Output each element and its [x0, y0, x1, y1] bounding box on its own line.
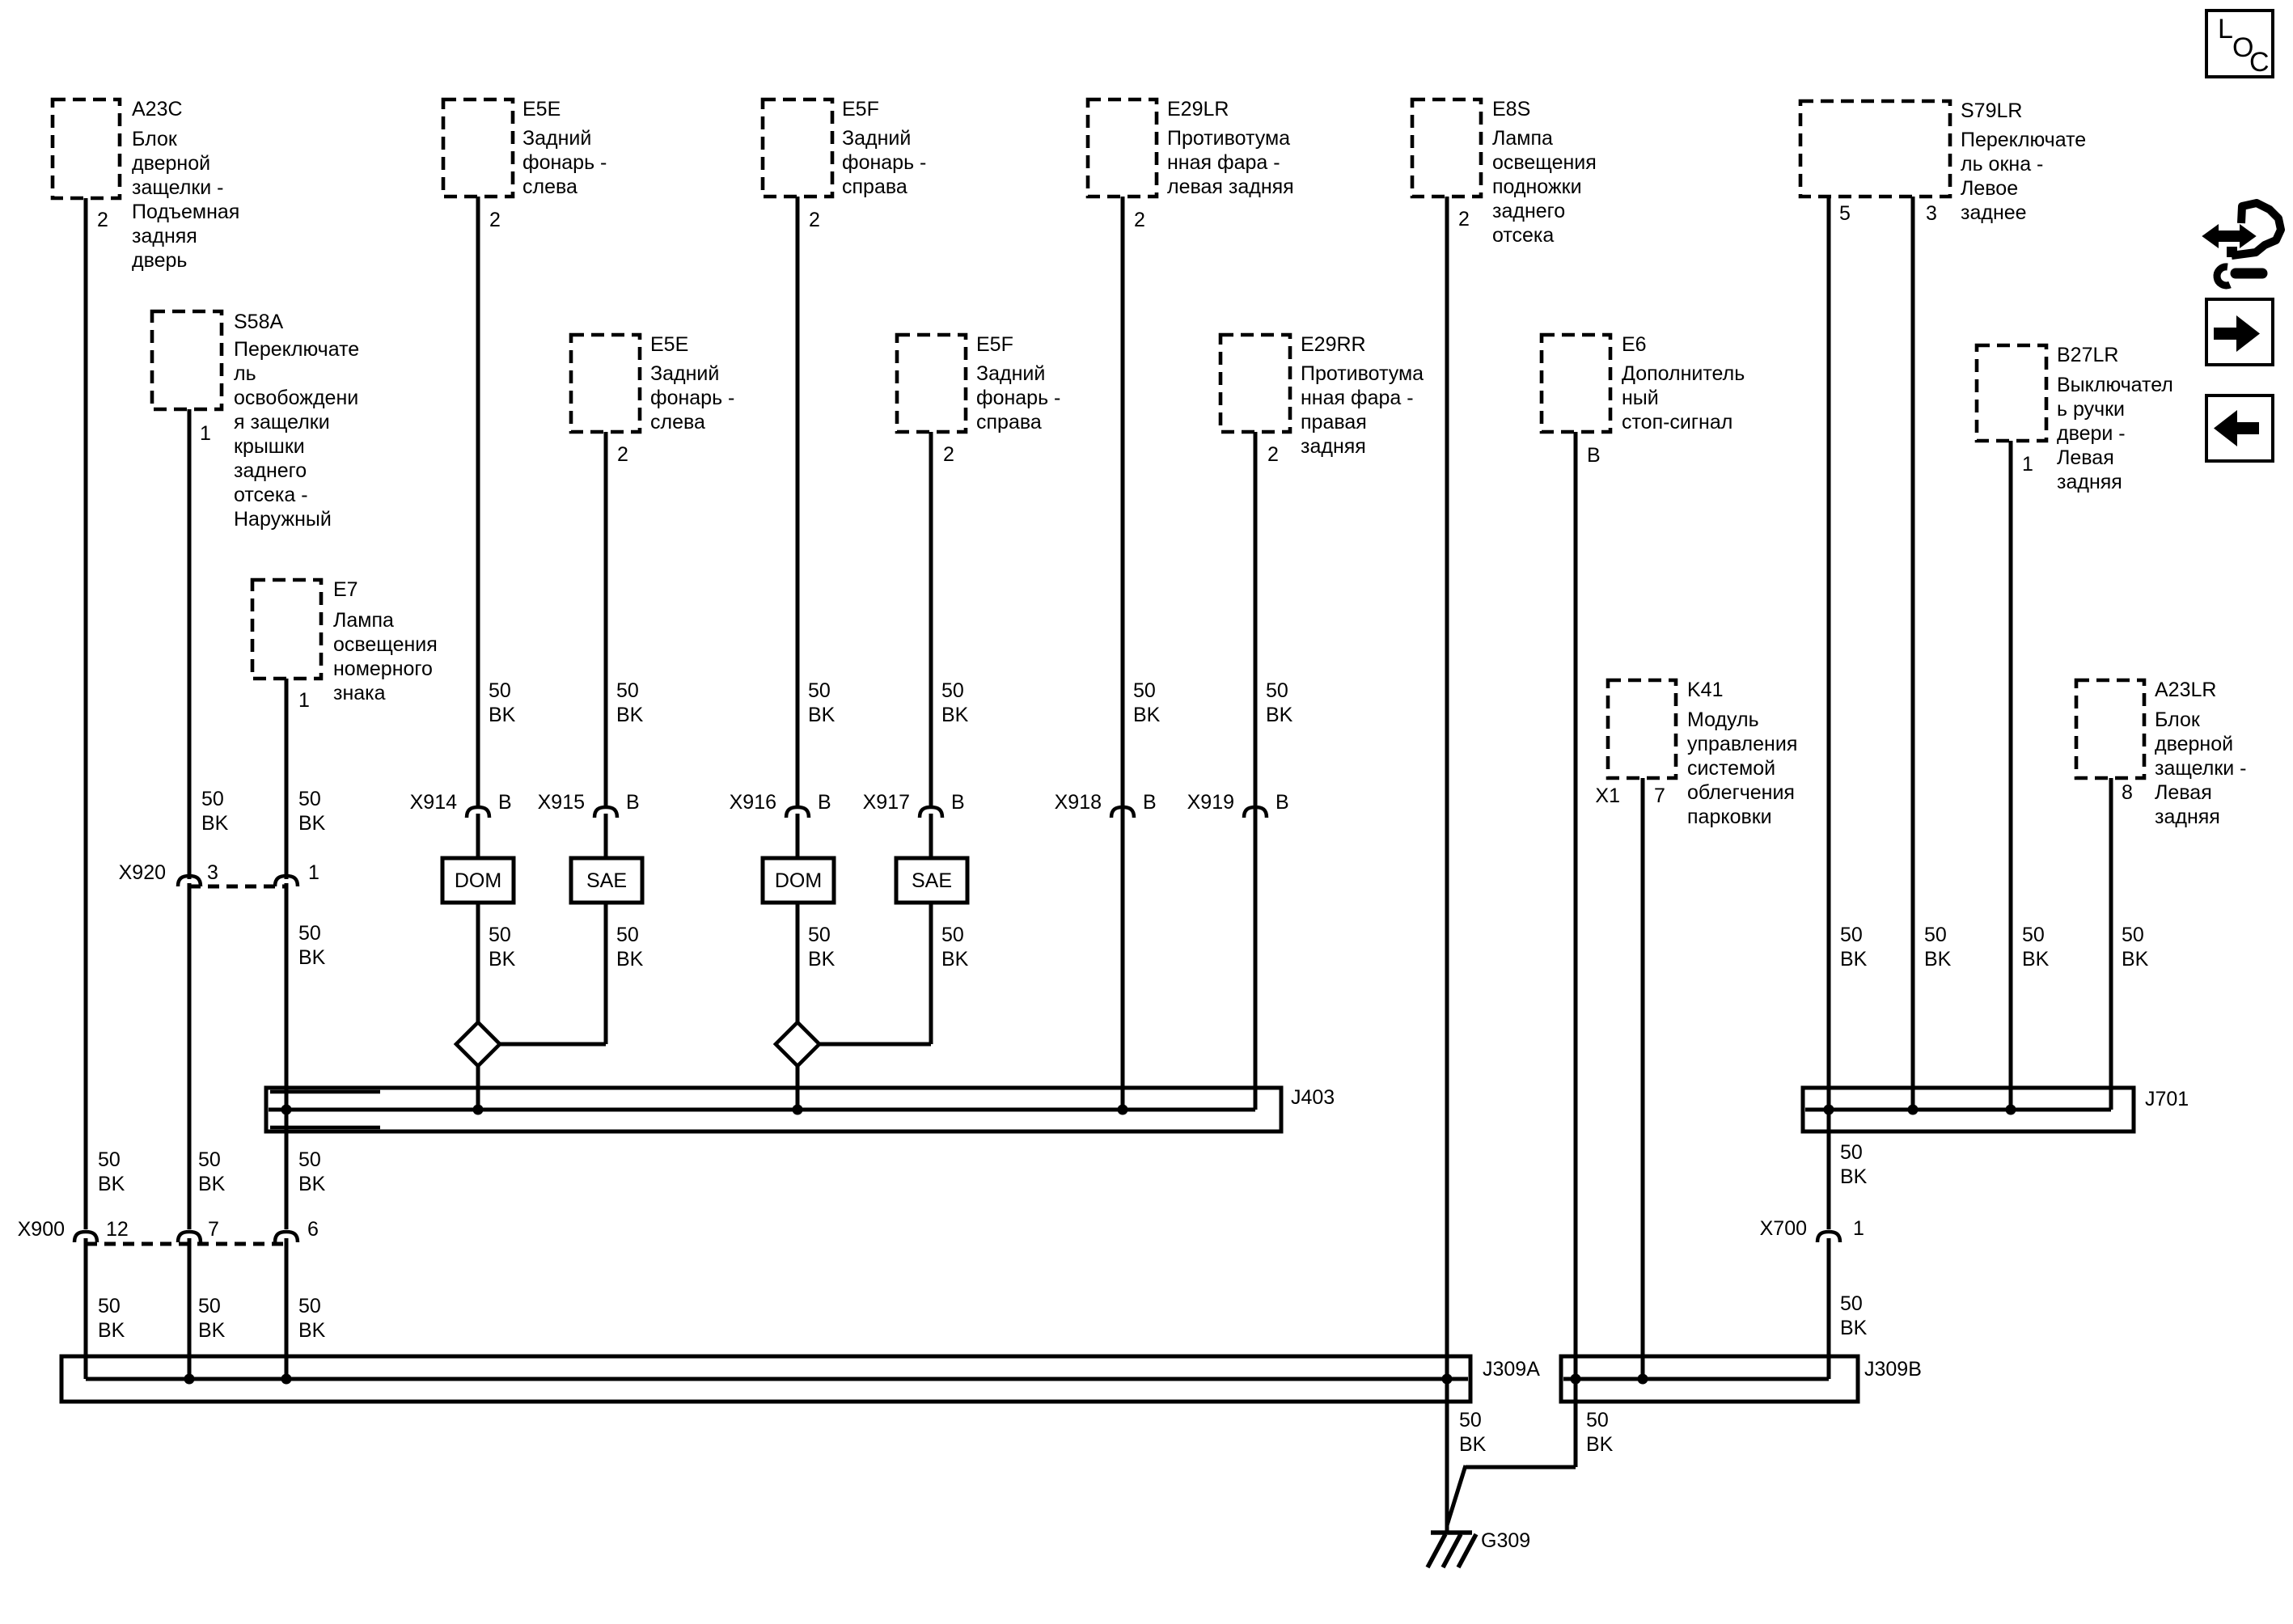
- svg-text:8: 8: [2122, 781, 2133, 804]
- svg-text:X919: X919: [1187, 791, 1234, 814]
- svg-text:справа: справа: [976, 411, 1042, 433]
- svg-text:Задний: Задний: [522, 127, 591, 150]
- connector X900 arc at pin 7: [178, 1232, 201, 1242]
- svg-text:1: 1: [298, 689, 310, 712]
- svg-text:BK: BK: [1840, 948, 1868, 971]
- svg-text:2: 2: [1267, 443, 1279, 466]
- svg-text:BK: BK: [941, 948, 969, 971]
- svg-text:BK: BK: [941, 704, 969, 726]
- splice box SAE left: [571, 858, 642, 903]
- svg-text:задняя: задняя: [1301, 435, 1366, 458]
- connector X920 dashed link: [189, 885, 286, 889]
- svg-text:7: 7: [208, 1218, 219, 1241]
- svg-text:50: 50: [808, 924, 831, 946]
- svg-text:правая: правая: [1301, 411, 1367, 433]
- svg-text:X920: X920: [119, 861, 166, 884]
- connector X900 dashed link: [86, 1242, 286, 1246]
- svg-text:BK: BK: [1133, 704, 1161, 726]
- component K41 (parking assist control module) dashed box: [1608, 680, 1676, 778]
- svg-text:J701: J701: [2145, 1088, 2189, 1110]
- connector X700 arc: [1817, 1232, 1840, 1242]
- svg-text:BK: BK: [1924, 948, 1952, 971]
- svg-text:BK: BK: [808, 948, 836, 971]
- LOC reference box: [2206, 11, 2273, 78]
- wire S58A below X920 to X900 pin 7: [188, 883, 192, 1229]
- splice diamond left: [456, 1022, 500, 1066]
- wire below X918 to bus J403: [1121, 814, 1125, 1110]
- svg-text:50: 50: [2122, 924, 2144, 946]
- svg-text:фонарь -: фонарь -: [976, 387, 1060, 409]
- ground symbol G309: [1428, 1533, 1476, 1567]
- svg-text:2: 2: [97, 209, 108, 231]
- connector X900 arc at pin 12: [74, 1232, 97, 1242]
- connector X918 arc: [1111, 807, 1134, 818]
- svg-text:Выключател: Выключател: [2057, 374, 2173, 396]
- svg-text:BK: BK: [808, 704, 836, 726]
- component E5F (tail lamp right, upper) dashed box: [763, 99, 832, 197]
- svg-text:отсека: отсека: [1492, 224, 1554, 247]
- svg-text:50: 50: [808, 679, 831, 702]
- svg-text:защелки -: защелки -: [132, 176, 224, 199]
- svg-text:заднего: заднего: [234, 459, 307, 482]
- wire K41 X1 pin7 down to bus J309B: [1641, 778, 1645, 1379]
- svg-text:управления: управления: [1687, 733, 1797, 755]
- svg-text:J309B: J309B: [1864, 1358, 1922, 1381]
- svg-text:Левая: Левая: [2057, 446, 2114, 469]
- svg-text:BK: BK: [1266, 704, 1293, 726]
- svg-text:фонарь -: фонарь -: [842, 151, 926, 174]
- svg-text:1: 1: [2022, 453, 2033, 476]
- wire B27LR pin1 down to bus J701: [2009, 441, 2013, 1110]
- wire DOM right to splice diamond: [796, 903, 800, 1024]
- svg-text:Левое: Левое: [1961, 177, 2018, 200]
- svg-text:50: 50: [1840, 1141, 1863, 1164]
- svg-text:Противотума: Противотума: [1167, 127, 1290, 150]
- svg-text:E5E: E5E: [650, 333, 688, 356]
- svg-text:фонарь -: фонарь -: [522, 151, 607, 174]
- wire E5E pin2 down to connector X914: [476, 197, 480, 806]
- svg-text:освобождени: освобождени: [234, 387, 358, 409]
- splice box DOM left: [442, 858, 514, 903]
- svg-text:5: 5: [1839, 202, 1851, 225]
- svg-text:B: B: [1143, 791, 1157, 814]
- connector X917 arc: [920, 807, 942, 818]
- svg-text:защелки -: защелки -: [2155, 757, 2247, 780]
- svg-text:50: 50: [1840, 1292, 1863, 1315]
- svg-text:S58A: S58A: [234, 311, 283, 333]
- svg-text:дверь: дверь: [132, 249, 187, 272]
- svg-text:12: 12: [106, 1218, 129, 1241]
- svg-text:BK: BK: [198, 1319, 226, 1342]
- svg-text:подножки: подножки: [1492, 176, 1582, 198]
- svg-text:стоп-сигнал: стоп-сигнал: [1622, 411, 1732, 433]
- svg-text:X900: X900: [18, 1218, 65, 1241]
- component E5E (tail lamp left, upper) dashed box: [443, 99, 513, 197]
- bus bar J701: [1803, 1088, 2134, 1131]
- svg-text:облегчения: облегчения: [1687, 781, 1795, 804]
- svg-text:BK: BK: [98, 1173, 125, 1195]
- wire E5F lower pin2 down to connector X917: [929, 432, 933, 806]
- bus bar J309A: [61, 1356, 1470, 1402]
- svg-text:BK: BK: [1840, 1317, 1868, 1339]
- wire X917 to SAE right: [929, 814, 933, 858]
- svg-text:Переключате: Переключате: [234, 338, 359, 361]
- svg-text:BK: BK: [198, 1173, 226, 1195]
- wire X915 to SAE left: [604, 814, 608, 858]
- svg-text:E29RR: E29RR: [1301, 333, 1366, 356]
- svg-text:B: B: [498, 791, 512, 814]
- svg-text:слева: слева: [650, 411, 705, 433]
- svg-text:BK: BK: [298, 1173, 326, 1195]
- svg-text:слева: слева: [522, 176, 577, 198]
- svg-text:двери -: двери -: [2057, 422, 2126, 445]
- svg-text:L: L: [2218, 14, 2233, 44]
- svg-text:B27LR: B27LR: [2057, 344, 2118, 366]
- svg-text:Левая: Левая: [2155, 781, 2212, 804]
- svg-text:SAE: SAE: [912, 869, 952, 892]
- component S58A (liftgate latch release switch) dashed box: [152, 311, 222, 409]
- svg-text:B: B: [818, 791, 831, 814]
- wire diamond left to bus J403: [476, 1064, 480, 1110]
- bus bar J403 doubled border detail at left end: [270, 1092, 380, 1127]
- svg-text:50: 50: [489, 679, 511, 702]
- svg-text:заднего: заднего: [1492, 200, 1565, 222]
- svg-text:2: 2: [809, 209, 820, 231]
- svg-text:Наружный: Наружный: [234, 508, 332, 531]
- svg-text:3: 3: [1926, 202, 1937, 225]
- svg-text:B: B: [951, 791, 965, 814]
- svg-text:ль: ль: [234, 362, 256, 385]
- svg-text:50: 50: [98, 1295, 121, 1317]
- icon diagnostic link (double arrow with wrench): [2203, 203, 2281, 285]
- component E8S (rear compartment sill lamp) dashed box: [1412, 99, 1481, 197]
- svg-text:BK: BK: [98, 1319, 125, 1342]
- svg-text:BK: BK: [1459, 1433, 1487, 1456]
- svg-text:Дополнитель: Дополнитель: [1622, 362, 1745, 385]
- wire DOM left to splice diamond: [476, 903, 480, 1024]
- svg-text:Задний: Задний: [842, 127, 911, 150]
- svg-text:X916: X916: [730, 791, 776, 814]
- svg-text:50: 50: [1266, 679, 1288, 702]
- svg-text:X917: X917: [863, 791, 910, 814]
- svg-text:BK: BK: [298, 812, 326, 835]
- bus bar J309B: [1561, 1356, 1858, 1402]
- svg-text:50: 50: [616, 924, 639, 946]
- svg-text:50: 50: [941, 924, 964, 946]
- svg-text:E6: E6: [1622, 333, 1647, 356]
- svg-text:BK: BK: [298, 946, 326, 969]
- svg-text:парковки: парковки: [1687, 806, 1772, 828]
- wire E6 elbow toward ground: [1466, 1465, 1576, 1470]
- wire X916 to DOM right: [796, 814, 800, 858]
- svg-text:A23C: A23C: [132, 98, 183, 121]
- svg-text:BK: BK: [489, 948, 516, 971]
- svg-text:Противотума: Противотума: [1301, 362, 1424, 385]
- svg-text:BK: BK: [2022, 948, 2050, 971]
- svg-text:X918: X918: [1055, 791, 1102, 814]
- wire diamond right to bus J403: [796, 1064, 800, 1110]
- connector X915 arc: [594, 807, 617, 818]
- component E5F (tail lamp right, lower) dashed box: [897, 335, 966, 432]
- svg-text:50: 50: [489, 924, 511, 946]
- svg-text:X914: X914: [410, 791, 457, 814]
- svg-text:B: B: [1587, 444, 1601, 467]
- bus bar J403: [266, 1088, 1281, 1131]
- svg-text:X700: X700: [1760, 1217, 1807, 1240]
- svg-text:E5F: E5F: [976, 333, 1013, 356]
- connector X920 arc at pin 1: [275, 876, 298, 886]
- svg-text:50: 50: [941, 679, 964, 702]
- svg-text:50: 50: [1133, 679, 1156, 702]
- svg-text:левая задняя: левая задняя: [1167, 176, 1294, 198]
- connector X900 arc at pin 6: [275, 1232, 298, 1242]
- component E29LR (fog lamp left rear) dashed box: [1088, 99, 1157, 197]
- svg-text:50: 50: [616, 679, 639, 702]
- component E29RR (fog lamp right rear) dashed box: [1221, 335, 1290, 432]
- svg-text:Подъемная: Подъемная: [132, 201, 239, 223]
- svg-text:Переключате: Переключате: [1961, 129, 2086, 151]
- wire E7 pin1 down to connector X920 pin 1: [285, 679, 289, 879]
- svg-text:E8S: E8S: [1492, 98, 1530, 121]
- svg-text:6: 6: [307, 1218, 319, 1241]
- svg-text:J309A: J309A: [1483, 1358, 1540, 1381]
- svg-text:50: 50: [2022, 924, 2045, 946]
- svg-text:Модуль: Модуль: [1687, 708, 1759, 731]
- wire S79LR pin3 down to bus J701: [1911, 197, 1915, 1110]
- component A23C (door latch assembly, liftgate) dashed box: [53, 99, 120, 198]
- connector X920 arc at pin 3: [178, 876, 201, 886]
- svg-text:Задний: Задний: [650, 362, 719, 385]
- svg-text:ный: ный: [1622, 387, 1659, 409]
- wire E5F pin2 down to connector X916: [796, 197, 800, 806]
- svg-text:номерного: номерного: [333, 658, 433, 680]
- svg-text:G309: G309: [1481, 1529, 1530, 1552]
- svg-text:2: 2: [489, 209, 501, 231]
- svg-text:A23LR: A23LR: [2155, 679, 2216, 701]
- svg-text:50: 50: [298, 1148, 321, 1171]
- svg-text:освещения: освещения: [333, 633, 438, 656]
- svg-text:освещения: освещения: [1492, 151, 1597, 174]
- svg-text:2: 2: [943, 443, 954, 466]
- svg-text:дверной: дверной: [132, 152, 210, 175]
- svg-text:E29LR: E29LR: [1167, 98, 1229, 121]
- component B27LR (door handle switch left rear) dashed box: [1977, 345, 2046, 441]
- svg-text:50: 50: [198, 1295, 221, 1317]
- svg-text:задняя: задняя: [2155, 806, 2220, 828]
- svg-text:50: 50: [201, 788, 224, 810]
- svg-text:BK: BK: [489, 704, 516, 726]
- svg-text:нная фара -: нная фара -: [1167, 151, 1280, 174]
- svg-text:B: B: [1276, 791, 1289, 814]
- svg-text:BK: BK: [298, 1319, 326, 1342]
- svg-text:E7: E7: [333, 578, 358, 601]
- svg-text:50: 50: [298, 788, 321, 810]
- svg-text:2: 2: [617, 443, 628, 466]
- connector X916 arc: [786, 807, 809, 818]
- svg-text:системой: системой: [1687, 757, 1775, 780]
- svg-text:1: 1: [308, 861, 319, 884]
- wire E7 below X920 through bus J403 to X900 pin 6: [285, 883, 289, 1229]
- wire A23LR pin8 down to bus J701 right end: [2109, 778, 2113, 1110]
- svg-text:X915: X915: [538, 791, 585, 814]
- component E7 (license plate lamp) dashed box: [252, 580, 321, 679]
- wire diagonal to ground G309: [1447, 1465, 1466, 1525]
- wire E8S pin2 down through bus J309A to ground G309: [1445, 197, 1449, 1531]
- svg-text:J403: J403: [1291, 1086, 1335, 1109]
- wire below X700 to bus J309B: [1827, 1238, 1831, 1379]
- wire S58A below X900 to bus J309A: [188, 1238, 192, 1379]
- svg-text:ль окна -: ль окна -: [1961, 153, 2043, 176]
- svg-text:задняя: задняя: [2057, 471, 2122, 493]
- svg-text:50: 50: [298, 922, 321, 945]
- svg-text:дверной: дверной: [2155, 733, 2233, 755]
- svg-text:BK: BK: [1586, 1433, 1614, 1456]
- svg-text:E5F: E5F: [842, 98, 879, 121]
- svg-text:50: 50: [1586, 1409, 1609, 1432]
- wire S79LR pin5 down through bus J701 and X700 to bus J309B: [1827, 197, 1831, 1229]
- svg-text:BK: BK: [616, 704, 644, 726]
- svg-text:крышки: крышки: [234, 435, 305, 458]
- svg-text:BK: BK: [1840, 1165, 1868, 1188]
- splice box DOM right: [763, 858, 834, 903]
- svg-text:справа: справа: [842, 176, 907, 198]
- wire elbow SAE left to diamond left: [498, 1042, 606, 1047]
- svg-text:DOM: DOM: [455, 869, 501, 892]
- svg-text:ь ручки: ь ручки: [2057, 398, 2125, 421]
- wire SAE right down to elbow: [929, 903, 933, 1044]
- svg-text:фонарь -: фонарь -: [650, 387, 734, 409]
- svg-text:50: 50: [1840, 924, 1863, 946]
- svg-text:я защелки: я защелки: [234, 411, 330, 433]
- wire below X919 to bus J403: [1254, 814, 1258, 1110]
- component A23LR (door latch assembly left rear) dashed box: [2076, 680, 2144, 778]
- component S79LR (window switch left rear) dashed box: [1800, 101, 1950, 197]
- svg-text:B: B: [626, 791, 640, 814]
- svg-text:50: 50: [1924, 924, 1947, 946]
- svg-text:2: 2: [1458, 208, 1470, 230]
- icon arrow left box: [2206, 395, 2273, 461]
- svg-text:E5E: E5E: [522, 98, 561, 121]
- svg-text:1: 1: [1853, 1217, 1864, 1240]
- wire E29RR pin2 down to bus J403 right end: [1254, 432, 1258, 1110]
- svg-text:BK: BK: [2122, 948, 2149, 971]
- svg-text:Блок: Блок: [132, 128, 178, 150]
- svg-text:Задний: Задний: [976, 362, 1045, 385]
- svg-text:SAE: SAE: [586, 869, 627, 892]
- icon arrow right box: [2206, 299, 2273, 365]
- connector X914 arc: [467, 807, 489, 818]
- wire SAE left down to elbow: [604, 903, 608, 1044]
- svg-text:Блок: Блок: [2155, 708, 2201, 731]
- svg-text:1: 1: [200, 422, 211, 445]
- svg-text:2: 2: [1134, 209, 1145, 231]
- wire elbow SAE right to diamond right: [818, 1042, 931, 1047]
- component E6 (center high stop lamp) dashed box: [1542, 335, 1610, 432]
- svg-text:K41: K41: [1687, 679, 1723, 701]
- svg-text:X1: X1: [1595, 785, 1620, 807]
- svg-text:7: 7: [1654, 785, 1665, 807]
- svg-text:отсека -: отсека -: [234, 484, 308, 506]
- svg-text:BK: BK: [616, 948, 644, 971]
- svg-text:50: 50: [298, 1295, 321, 1317]
- svg-text:Лампа: Лампа: [1492, 127, 1553, 150]
- wire A23C below X900 to bus J309A: [84, 1238, 88, 1379]
- svg-text:DOM: DOM: [775, 869, 822, 892]
- svg-text:знака: знака: [333, 682, 386, 704]
- svg-text:C: C: [2249, 47, 2270, 78]
- wire E29LR pin2 down to bus J403: [1121, 197, 1125, 1110]
- component E5E (tail lamp left, lower) dashed box: [571, 335, 640, 432]
- splice diamond right: [776, 1022, 819, 1066]
- svg-text:задняя: задняя: [132, 225, 197, 247]
- svg-text:50: 50: [98, 1148, 121, 1171]
- wire X914 to DOM left: [476, 814, 480, 858]
- wire A23C pin2 down to connector X900 pin 12: [84, 198, 88, 1229]
- svg-text:S79LR: S79LR: [1961, 99, 2022, 122]
- svg-text:50: 50: [1459, 1409, 1482, 1432]
- connector X919 arc: [1244, 807, 1267, 818]
- svg-text:50: 50: [198, 1148, 221, 1171]
- wire E7 below X900 to bus J309A: [285, 1238, 289, 1379]
- wire E6 pinB down through bus J309B: [1574, 432, 1578, 1467]
- splice box SAE right: [896, 858, 967, 903]
- wire S58A pin1 down to connector X920 pin 3: [188, 409, 192, 879]
- svg-text:3: 3: [207, 861, 218, 884]
- svg-text:нная фара -: нная фара -: [1301, 387, 1414, 409]
- svg-text:Лампа: Лампа: [333, 609, 394, 632]
- svg-text:BK: BK: [201, 812, 229, 835]
- wire E5E lower pin2 down to connector X915: [604, 432, 608, 806]
- svg-text:заднее: заднее: [1961, 201, 2027, 224]
